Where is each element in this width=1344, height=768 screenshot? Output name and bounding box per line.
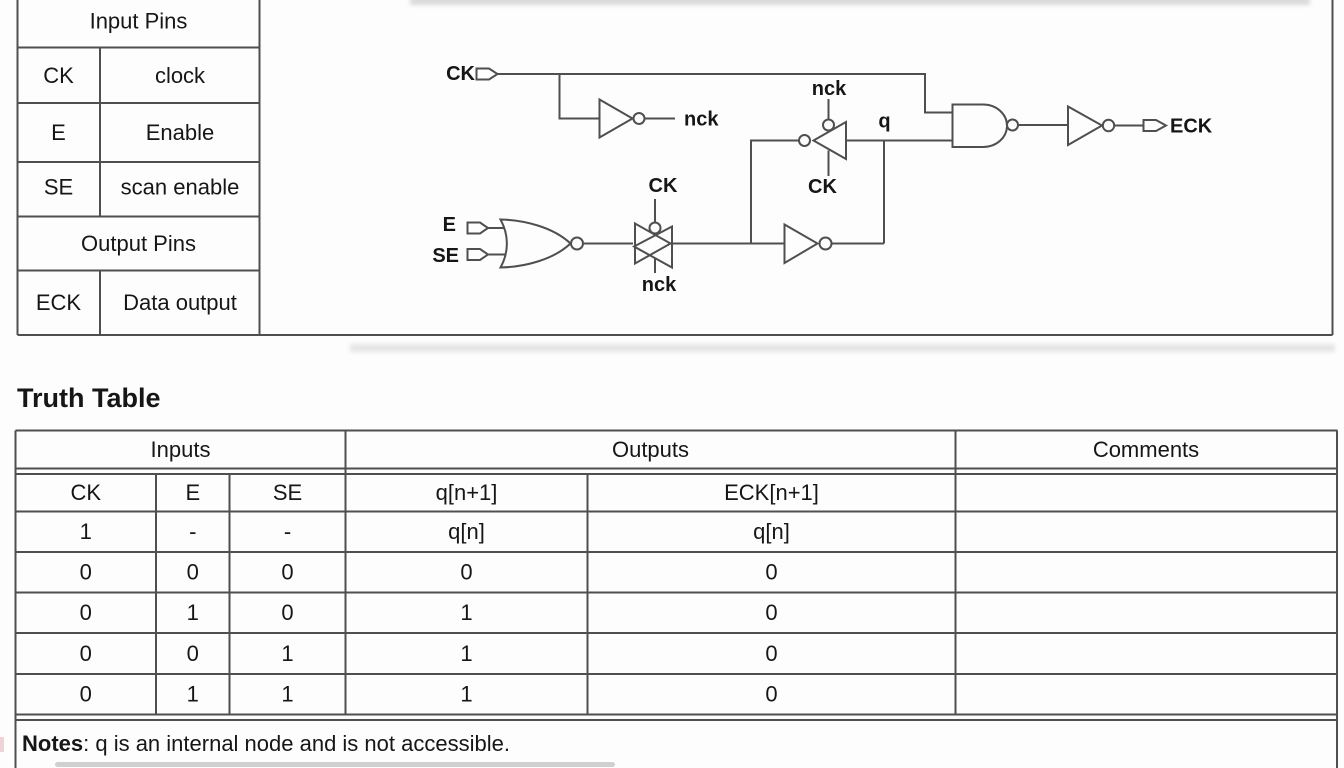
svg-text:CK: CK [808,176,837,198]
svg-text:Notes: q is an internal node a: Notes: q is an internal node and is not … [22,731,510,756]
svg-text:q: q [878,111,890,133]
svg-text:Data output: Data output [123,290,237,315]
svg-text:-: - [284,519,291,544]
svg-text:0: 0 [765,560,777,585]
svg-text:Comments: Comments [1093,437,1199,462]
svg-text:1: 1 [187,682,199,707]
svg-text:1: 1 [460,682,472,707]
svg-text:ECK: ECK [36,290,82,315]
svg-text:ECK: ECK [1170,116,1213,138]
svg-text:nck: nck [684,109,719,131]
svg-text:0: 0 [765,682,777,707]
svg-text:0: 0 [80,560,92,585]
svg-text:0: 0 [460,560,472,585]
svg-text:clock: clock [155,63,206,88]
svg-text:CK: CK [446,63,475,85]
svg-text:0: 0 [80,682,92,707]
svg-text:Truth Table: Truth Table [17,383,161,413]
svg-text:1: 1 [460,600,472,625]
svg-text:1: 1 [281,682,293,707]
svg-text:0: 0 [187,641,199,666]
svg-text:E: E [185,480,200,505]
svg-text:CK: CK [71,480,102,505]
svg-text:q[n+1]: q[n+1] [436,480,498,505]
svg-text:E: E [51,120,66,145]
svg-text:0: 0 [765,641,777,666]
svg-text:0: 0 [281,600,293,625]
svg-text:q[n]: q[n] [753,519,790,544]
svg-text:Input Pins: Input Pins [90,9,188,34]
svg-text:Output Pins: Output Pins [81,231,196,256]
svg-text:0: 0 [765,600,777,625]
svg-text:Inputs: Inputs [151,437,211,462]
svg-text:Outputs: Outputs [612,437,689,462]
svg-text:nck: nck [642,274,677,296]
svg-text:ECK[n+1]: ECK[n+1] [724,480,819,505]
svg-text:SE: SE [273,480,302,505]
svg-text:1: 1 [187,600,199,625]
svg-text:1: 1 [460,641,472,666]
svg-text:0: 0 [80,641,92,666]
svg-text:1: 1 [281,641,293,666]
svg-text:SE: SE [44,175,73,200]
svg-text:scan enable: scan enable [121,175,240,200]
svg-text:CK: CK [43,63,74,88]
svg-text:q[n]: q[n] [448,519,485,544]
svg-text:E: E [443,214,456,236]
svg-text:0: 0 [80,600,92,625]
svg-text:SE: SE [432,245,459,267]
svg-text:Enable: Enable [146,120,215,145]
svg-text:-: - [189,519,196,544]
svg-text:1: 1 [80,519,92,544]
svg-text:0: 0 [187,560,199,585]
svg-text:nck: nck [812,78,847,100]
svg-text:0: 0 [281,560,293,585]
svg-text:CK: CK [649,175,678,197]
